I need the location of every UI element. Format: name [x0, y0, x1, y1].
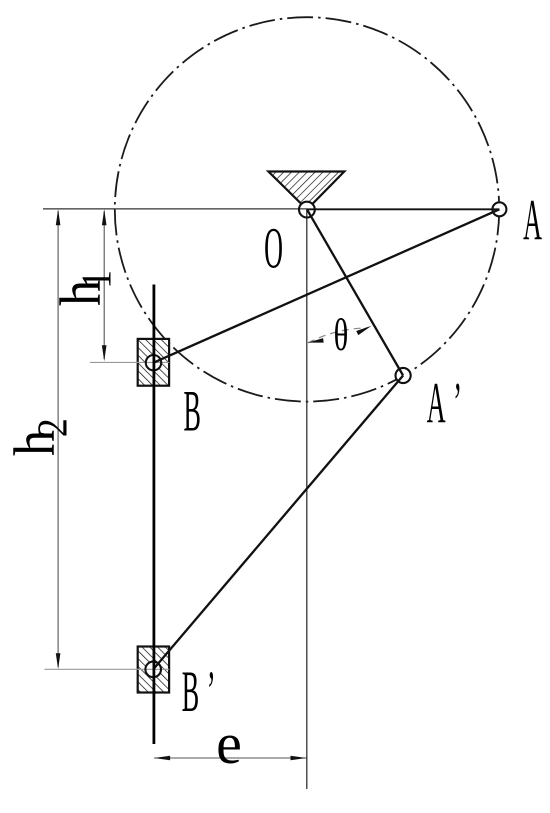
label A	[523, 188, 542, 252]
label B	[183, 379, 200, 443]
label e	[216, 711, 242, 776]
connecting rod A'-B'	[153, 376, 403, 670]
extension line at B level	[90, 361, 169, 363]
svg-text:B: B	[183, 379, 200, 443]
pivot circle white fills	[145, 202, 506, 678]
label B'	[182, 659, 216, 723]
crank O-A	[307, 208, 499, 210]
pivot B' ring	[145, 662, 161, 678]
svg-text:θ: θ	[334, 311, 349, 360]
svg-text:B’: B’	[182, 659, 216, 723]
e arrow right	[291, 756, 307, 761]
pivot O ring	[299, 202, 315, 218]
fixed pivot support triangle (hatched)	[268, 172, 344, 210]
dimension line h1	[103, 211, 105, 359]
label A'	[427, 371, 462, 435]
svg-text:A’: A’	[427, 371, 462, 435]
svg-text:h1: h1	[48, 270, 120, 306]
svg-text:O: O	[264, 216, 283, 280]
pivot A' ring	[396, 368, 411, 383]
pivot A ring	[492, 202, 506, 216]
h1 arrow down	[102, 345, 107, 361]
svg-text:A: A	[523, 188, 542, 252]
crank O-A'	[307, 209, 403, 375]
svg-text:e: e	[216, 711, 242, 776]
dimension line e	[154, 757, 306, 759]
vertical centerline through O	[306, 209, 308, 789]
label h2 (rotated)	[2, 418, 76, 456]
slider B' (hatched block)	[138, 647, 169, 693]
label theta	[334, 311, 349, 360]
theta arc arrow right	[356, 326, 371, 335]
horizontal reference line (extension)	[43, 208, 307, 210]
slider guide rail	[152, 285, 155, 745]
extension line at B' level	[45, 668, 170, 670]
theta arc arrow left	[308, 338, 324, 343]
theta angle dashed arc	[308, 328, 368, 343]
h2 arrow down	[56, 653, 61, 669]
label O	[264, 216, 283, 280]
dimension line h2	[57, 211, 59, 667]
svg-text:h2: h2	[2, 418, 76, 456]
crank circle (dash-dot path of point A)	[115, 17, 499, 401]
pivot B ring	[146, 355, 161, 370]
label h1 (rotated)	[48, 270, 120, 306]
slider B (hatched block)	[138, 339, 169, 386]
connecting rod A-B	[154, 209, 500, 362]
h1 arrow up	[102, 209, 107, 225]
e arrow left	[154, 756, 170, 761]
h2 arrow up	[56, 209, 61, 225]
